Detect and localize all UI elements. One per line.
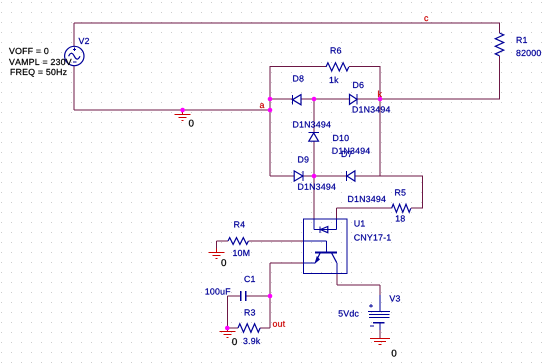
voltage source V2 <box>65 46 84 65</box>
label R3 <box>245 309 255 315</box>
resistor R5 <box>392 204 411 212</box>
label 1k <box>330 77 339 83</box>
diode D6 <box>350 94 358 104</box>
label D1N3494 of D6 <box>353 106 390 112</box>
wire C1 left to R3 left <box>227 296 241 328</box>
U1 internal phototransistor <box>304 241 338 274</box>
diode D10 <box>308 133 318 142</box>
optocoupler U1 box <box>304 219 348 274</box>
label D9 <box>298 156 308 162</box>
node a lower dot <box>268 108 273 113</box>
label D8 <box>293 75 303 81</box>
node a upper dot <box>268 97 273 102</box>
ground 0 at R4 <box>209 249 225 259</box>
label D1N3494 of D10 <box>333 148 370 154</box>
label D10 <box>333 135 349 141</box>
label ground 0 at R4 <box>221 259 226 266</box>
diode D8 <box>292 95 301 105</box>
label VOFF <box>9 48 48 54</box>
ground 0 at bottom wire <box>175 110 191 120</box>
node label a <box>260 103 265 108</box>
resistor R4 <box>228 238 248 245</box>
node label k <box>378 91 382 97</box>
wire bottom row to R5 to U1 <box>337 176 423 219</box>
wire V3 minus to ground <box>379 330 381 338</box>
label V2 <box>79 38 90 44</box>
node dot at ground on bottom wire <box>180 108 185 113</box>
resistor R1 <box>495 33 503 56</box>
label D1N3494 of D9 <box>298 184 335 190</box>
node label out <box>273 321 285 327</box>
label 82000 <box>516 50 541 56</box>
wire bridge bottom row <box>270 175 380 177</box>
battery V3 <box>368 295 390 330</box>
label VAMPL <box>9 59 72 65</box>
wire R1 stubs <box>499 23 501 99</box>
wire R4 to U1 pin base <box>248 240 303 242</box>
label C1 <box>244 276 255 282</box>
node dot C1 right <box>268 294 273 299</box>
ground 0 at R3 <box>219 328 235 338</box>
label U1 <box>355 220 365 226</box>
ground 0 at V3 <box>370 339 390 345</box>
label FREQ <box>11 69 67 77</box>
wire U1 collector to V3 <box>337 274 380 296</box>
wire bridge left vertical <box>269 99 271 176</box>
wire bridge right vertical <box>379 99 381 176</box>
node dot bridge top center <box>312 97 317 102</box>
label R4 <box>234 221 245 227</box>
node dot R3 ground <box>225 326 230 331</box>
node label c <box>424 16 428 21</box>
label 5Vdc <box>339 310 359 317</box>
label ground 0 at V3 <box>392 350 397 357</box>
wire top from V2 to R1 <box>74 22 500 24</box>
label R5 <box>395 189 405 195</box>
wire bridge top row <box>270 98 380 100</box>
capacitor C1 <box>241 291 246 301</box>
label 3.9k <box>243 338 260 345</box>
label R6 <box>331 47 341 53</box>
label ground 0 at R3 <box>232 338 237 345</box>
label D1N3494 of D7 <box>348 196 385 202</box>
label CNY17-1 <box>354 234 391 240</box>
diode D9 <box>294 171 303 181</box>
wire R3 right to out node <box>260 327 270 329</box>
wire C1 right plate to node <box>246 295 270 297</box>
wire k to R1 <box>380 98 500 100</box>
label 10M <box>233 250 249 256</box>
label D7 <box>342 151 352 157</box>
label D1N3494 of D8 <box>293 121 330 127</box>
node dot bridge bottom center <box>312 174 317 179</box>
label D6 <box>353 82 363 88</box>
wire V2 bottom stub <box>73 66 75 110</box>
label 100uF <box>206 288 231 294</box>
resistor R6 <box>326 63 349 71</box>
label 18 <box>396 215 405 221</box>
node k dot <box>378 97 383 102</box>
label R1 <box>517 37 527 43</box>
wire R6 bypass loop <box>270 67 380 100</box>
wire bottom from V2 to bridge <box>74 109 270 111</box>
resistor R3 <box>238 324 260 332</box>
diode D7 <box>347 171 355 181</box>
U1 internal LED <box>314 219 337 233</box>
wire V2 top stub <box>73 23 75 46</box>
label ground 0 bottom wire <box>189 120 194 127</box>
label V3 <box>389 295 400 301</box>
wire U1 emitter to C1 R3 node <box>270 263 304 328</box>
wire R4 to ground <box>217 241 228 249</box>
wire bridge center vertical <box>313 99 315 219</box>
